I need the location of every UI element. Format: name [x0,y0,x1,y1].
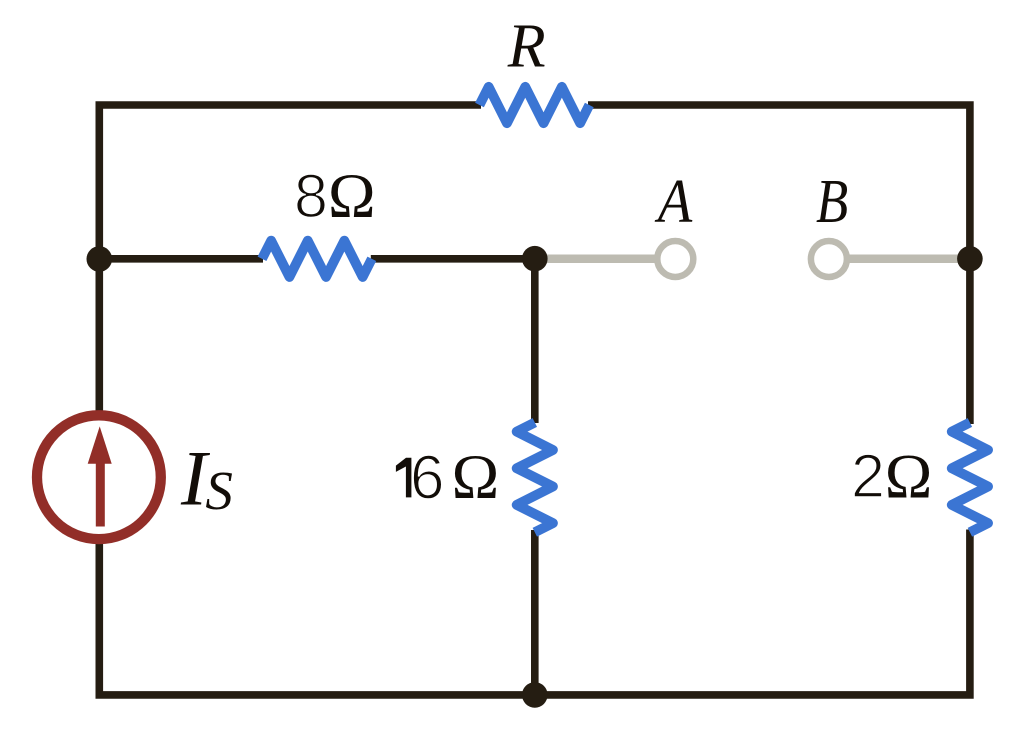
node at middle wire / 16-ohm branch junction [522,246,548,272]
node at bottom rail / 16-ohm branch junction [522,682,548,708]
wire gray stub from terminal B to right rail [845,255,970,264]
wire top-left: from R left end across top-left corner down to current source top [99,105,481,411]
svg-text:R: R [507,13,546,81]
svg-text:Ω: Ω [328,160,376,231]
wire middle horizontal right: 8-ohm right lead to middle node [371,255,535,263]
svg-text:A: A [654,166,693,235]
svg-text:B: B [816,168,848,236]
svg-text:Ω: Ω [885,441,933,512]
resistor 2-ohm (vertical zigzag) [952,423,988,533]
resistor 8-ohm (horizontal zigzag) [262,241,372,277]
label 16 ohm: digit 1 (helvetica-style, custom path) [396,458,412,498]
resistor R (horizontal zigzag) [480,87,590,123]
resistor 16-ohm (vertical zigzag) [517,423,553,533]
node at left rail / middle wire junction [87,246,113,272]
svg-text:Ω: Ω [452,441,500,512]
svg-text:2: 2 [851,442,885,510]
wire top-right: from 2-ohm top lead up across top-right corner to R right end [588,105,970,424]
current source arrow shaft [96,460,105,527]
wire gray stub to terminal A [535,255,659,264]
wire middle horizontal left: left rail to 8-ohm left lead [99,255,263,263]
svg-text:6: 6 [410,444,444,513]
terminal A (open circle) [657,241,693,277]
current source arrow head [88,426,112,463]
wire middle vertical lower: 16-ohm bottom lead down to bottom rail [531,530,539,695]
svg-text:S: S [205,460,233,521]
current source IS (circle) [37,415,161,539]
label B [816,168,848,236]
svg-text:8: 8 [294,162,328,230]
node at right rail / terminal-B wire junction [957,246,983,272]
label A [654,166,693,235]
wire bottom-left: from current source bottom down and across bottom rail to middle node [99,544,535,695]
wire bottom-right: from middle bottom node across to bottom-right corner and up to 2-ohm bottom lead [535,530,970,695]
terminal B (open circle) [811,241,847,277]
wire middle vertical upper: middle node down to 16-ohm top lead [531,259,539,423]
